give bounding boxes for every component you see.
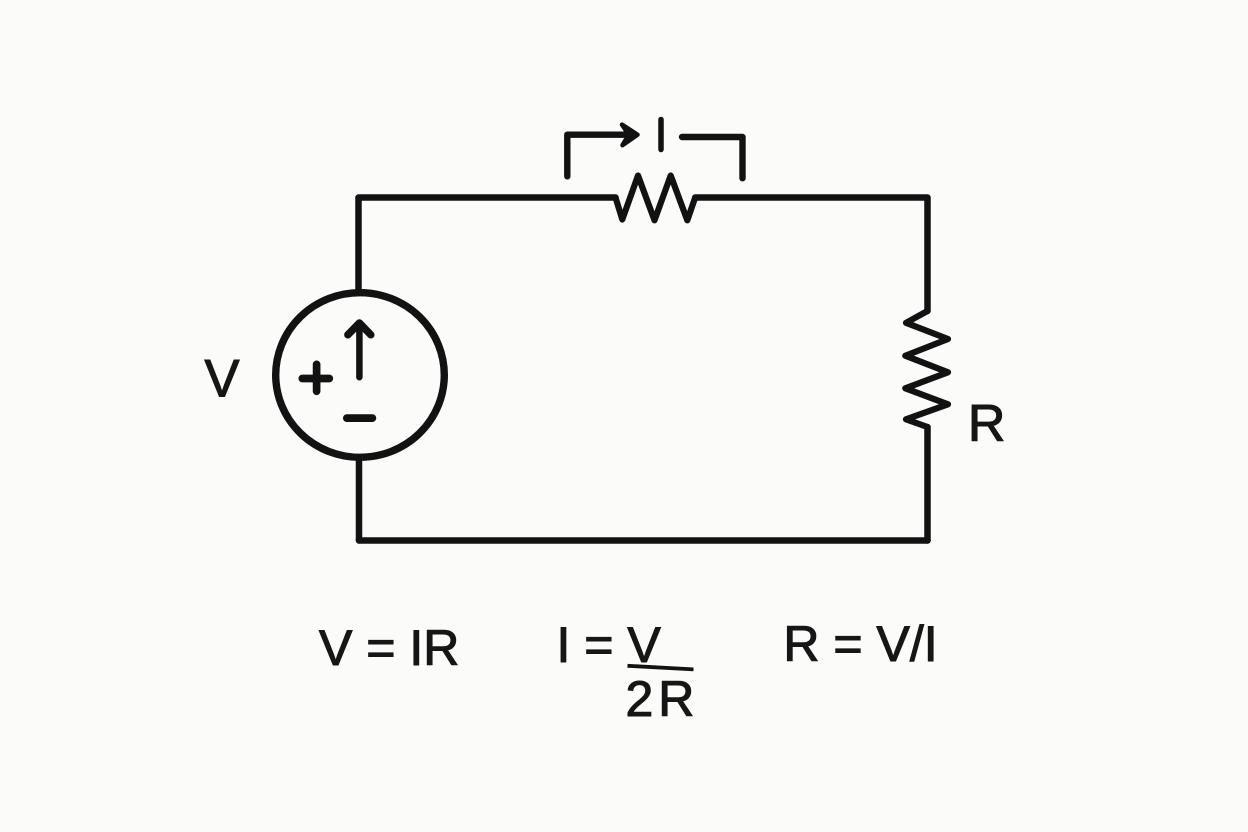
current indicator: arrowhead — [622, 125, 638, 146]
wire: bottom return — [359, 537, 928, 544]
svg-text:R = V/I: R = V/I — [783, 616, 937, 672]
minus polarity mark — [347, 414, 373, 422]
svg-text:R: R — [968, 395, 1006, 453]
wire: top-left segment (source top to resistor) — [359, 198, 616, 291]
fraction bar of I = V/2R — [628, 666, 694, 670]
svg-text:I = V: I = V — [557, 617, 662, 673]
resistor (top, in series) — [616, 176, 696, 221]
wire: bottom-left up to source bottom — [356, 461, 363, 541]
svg-text:2R: 2R — [626, 671, 700, 727]
svg-text:V = IR: V = IR — [319, 620, 459, 676]
plus polarity mark — [302, 364, 329, 391]
resistor R (right, vertical) — [905, 311, 948, 427]
current indicator: right bracket — [682, 137, 743, 178]
current indicator: left bracket with arrow — [567, 135, 629, 177]
label I (current) — [658, 120, 664, 150]
internal arrowhead — [348, 323, 371, 335]
voltage source V (circle) — [276, 293, 445, 458]
wire: resistor R to bottom-right corner — [924, 427, 931, 541]
internal arrow shaft (current direction inside source) — [356, 327, 363, 377]
svg-text:V: V — [205, 349, 240, 408]
wire: resistor to top-right corner, down to resistor R — [695, 198, 927, 312]
